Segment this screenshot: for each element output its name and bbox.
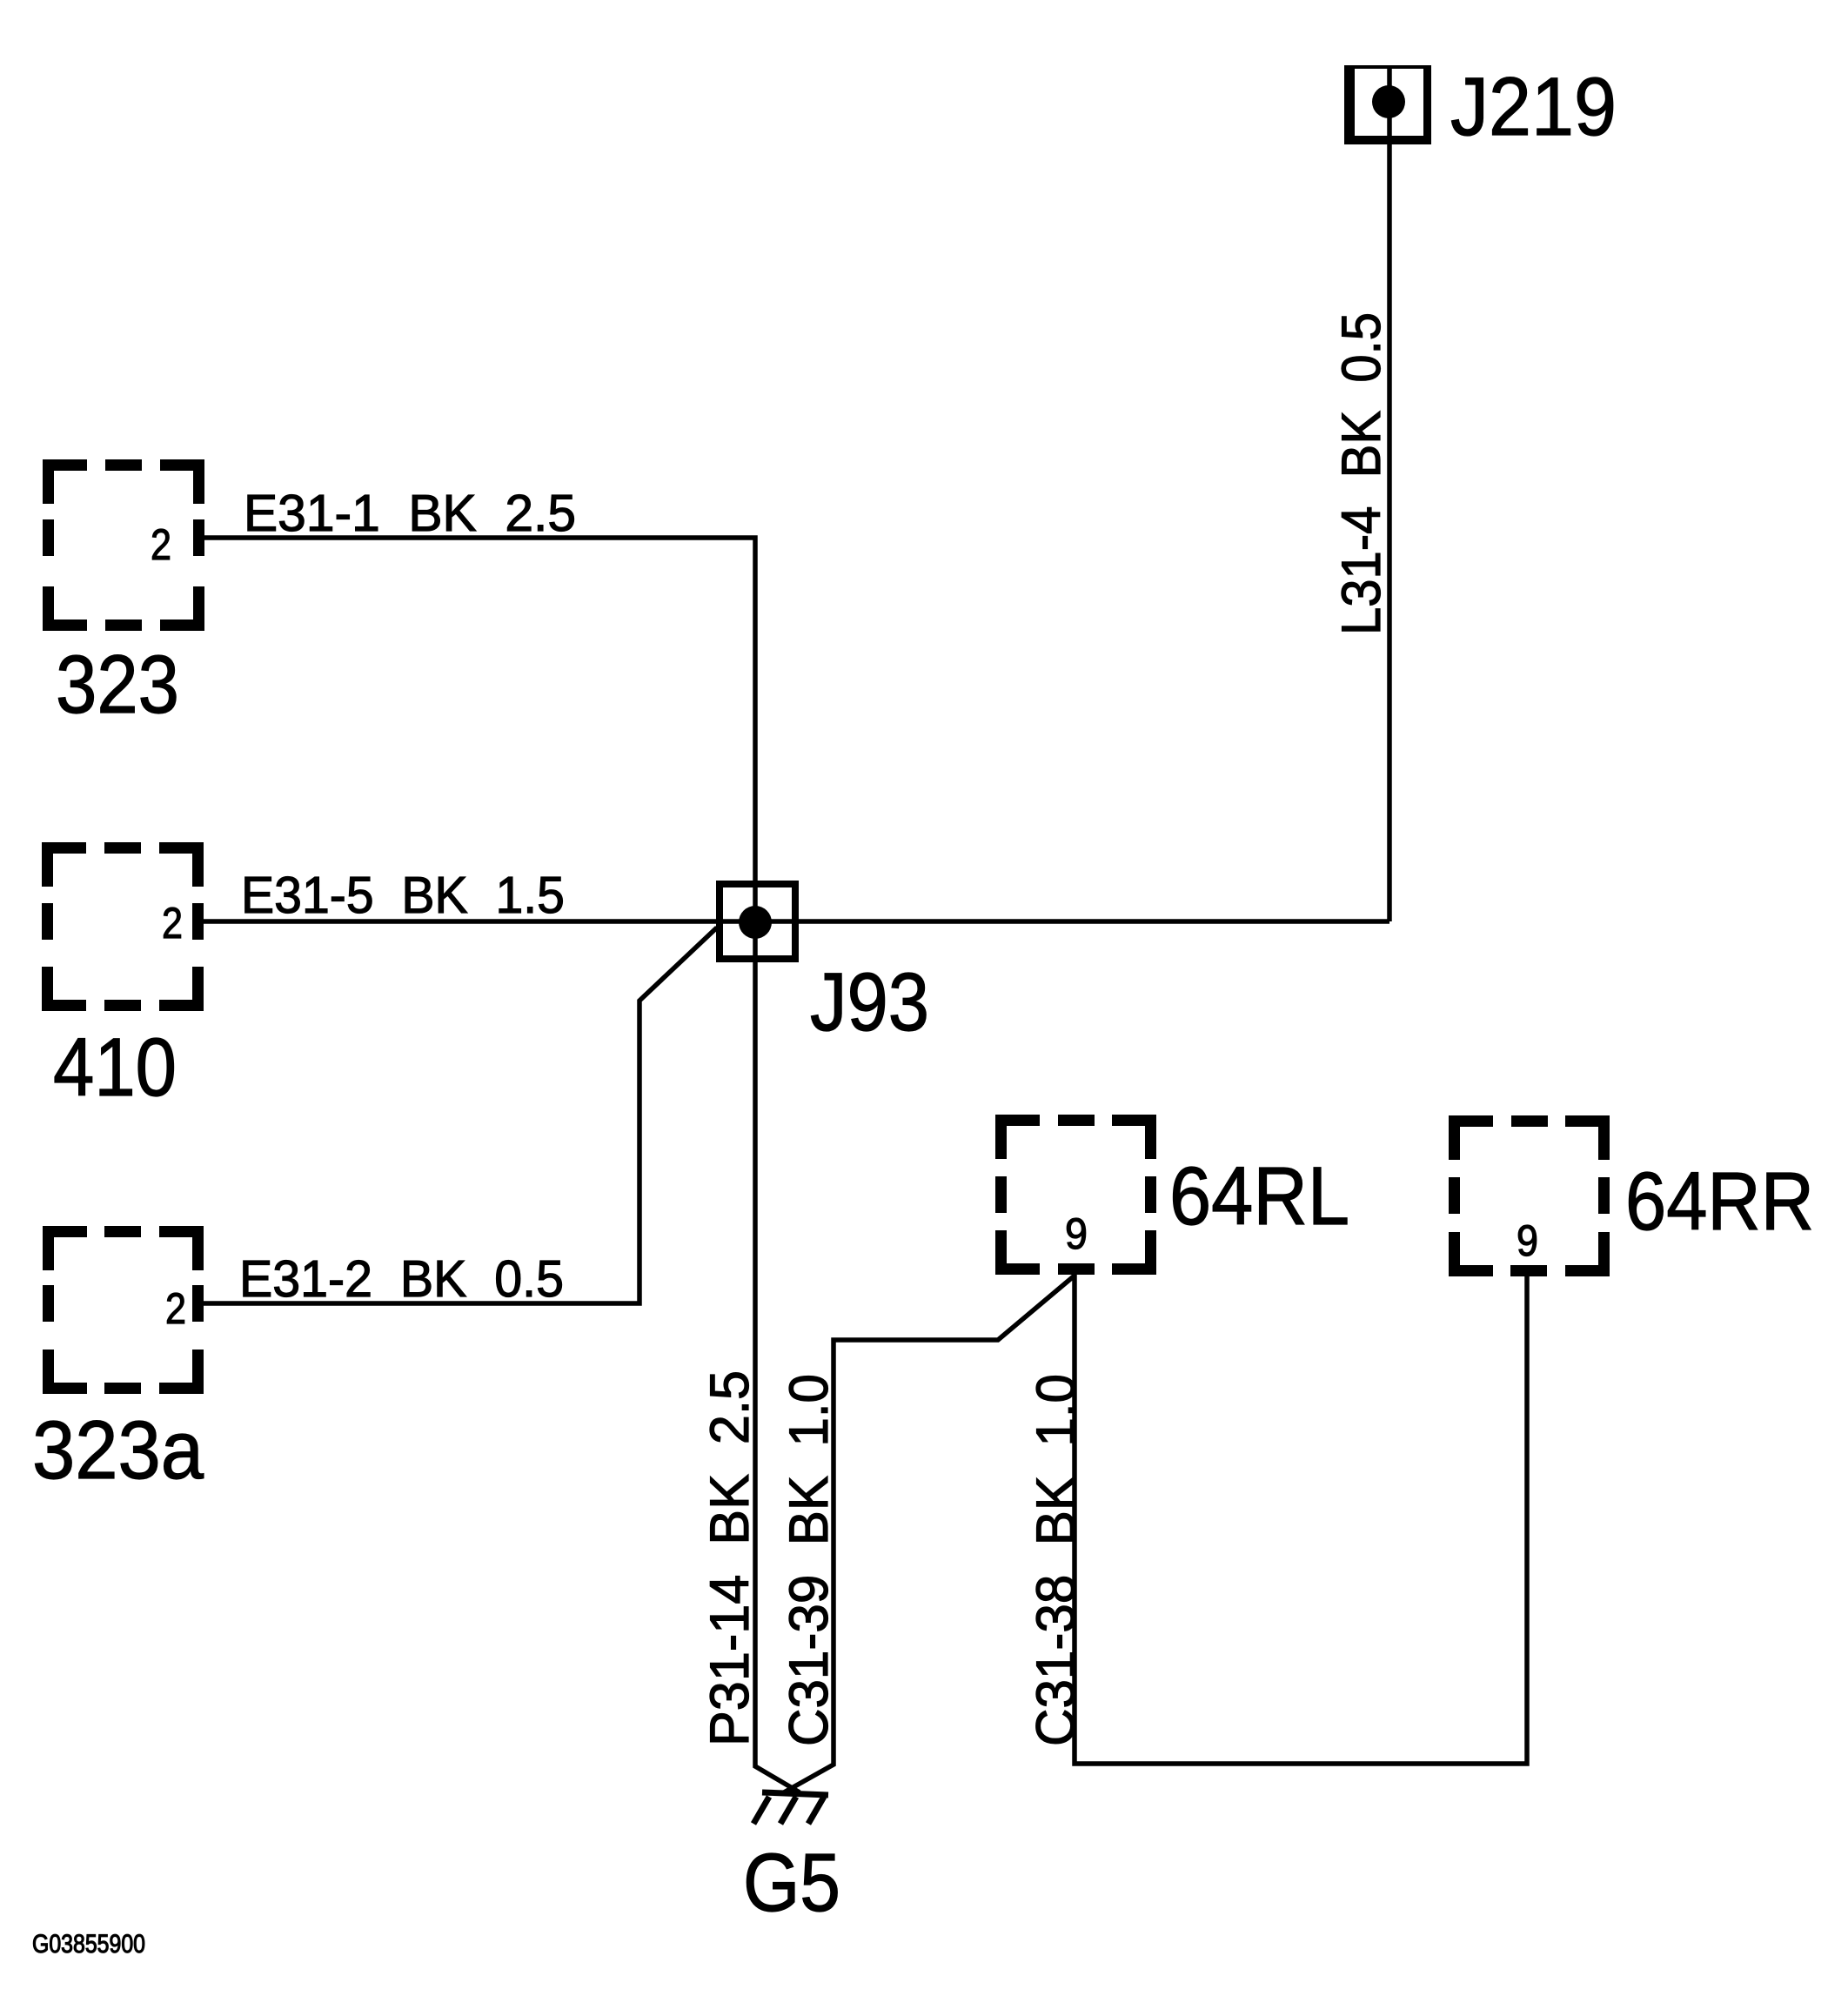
- svg-text:2: 2: [165, 1284, 186, 1333]
- junction J93: [720, 884, 795, 959]
- svg-text:64RL: 64RL: [1169, 1150, 1349, 1242]
- svg-text:64RR: 64RR: [1625, 1155, 1814, 1248]
- svg-text:9: 9: [1065, 1209, 1088, 1258]
- svg-text:C31-39 BK 1.0: C31-39 BK 1.0: [779, 1374, 840, 1746]
- connector 323a (dashed box): [43, 1226, 204, 1394]
- wire E31-1 from connector 323 to junction J93 then down as P31-14 to ground G5: [204, 538, 800, 1792]
- svg-text:E31-2 BK 0.5: E31-2 BK 0.5: [239, 1250, 564, 1308]
- svg-text:P31-14 BK 2.5: P31-14 BK 2.5: [700, 1370, 760, 1746]
- junction J219: [1344, 65, 1431, 144]
- svg-text:L31-4 BK 0.5: L31-4 BK 0.5: [1331, 312, 1392, 635]
- connector 410 (dashed box): [42, 842, 204, 1011]
- wire C31-38 from 64RL pin 9 to 64RR pin 9: [1075, 1275, 1527, 1764]
- connector 323 (dashed box): [43, 459, 204, 631]
- svg-text:J93: J93: [810, 956, 929, 1048]
- svg-text:J219: J219: [1450, 61, 1617, 153]
- svg-text:2: 2: [162, 899, 183, 948]
- connector 64RL (dashed box): [995, 1115, 1156, 1275]
- svg-text:G5: G5: [743, 1837, 840, 1929]
- svg-text:E31-5 BK 1.5: E31-5 BK 1.5: [241, 867, 565, 924]
- connector 64RR (dashed box): [1449, 1115, 1610, 1276]
- svg-text:C31-38 BK 1.0: C31-38 BK 1.0: [1026, 1374, 1087, 1746]
- wire E31-2 from connector 323a up to J93: [204, 928, 717, 1303]
- svg-text:E31-1 BK 2.5: E31-1 BK 2.5: [244, 485, 576, 542]
- svg-text:G03855900: G03855900: [32, 1930, 145, 1959]
- wire L31-4 vertical drop from J219: [1387, 67, 1392, 921]
- svg-text:323: 323: [56, 639, 179, 731]
- svg-text:9: 9: [1517, 1216, 1538, 1265]
- svg-text:323a: 323a: [32, 1404, 204, 1497]
- ground symbol G5: [753, 1792, 828, 1824]
- svg-text:2: 2: [151, 520, 171, 569]
- wire C31-39 from 64RL pin 9 down to ground G5: [784, 1276, 1075, 1792]
- svg-text:410: 410: [53, 1021, 177, 1114]
- wire E31-5 from connector 410 through J93 to J219 drop: [204, 919, 1389, 924]
